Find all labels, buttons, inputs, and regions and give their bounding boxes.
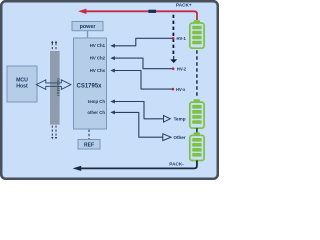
svg-text:HV Ch1: HV Ch1 <box>90 43 106 48</box>
svg-text:HV Chx: HV Chx <box>90 68 106 73</box>
wire Other sensor to other Ch <box>114 112 163 137</box>
svg-text:PACK+: PACK+ <box>176 3 192 8</box>
wire HV-1 to HV Ch1 <box>114 38 173 46</box>
Temp buffer triangle <box>164 116 171 123</box>
battery cell 2 <box>190 99 204 128</box>
node HV-x <box>172 88 175 91</box>
svg-text:HV-x: HV-x <box>176 87 186 92</box>
svg-text:PACK-: PACK- <box>169 161 184 166</box>
svg-text:REF: REF <box>84 143 94 149</box>
isolator barrier dashed continuation (bottom, arrows down) <box>51 126 57 140</box>
cell chain dashed line between cell 1 and cell 2 <box>196 50 198 98</box>
solid link between cell 2 and cell 3 <box>196 128 198 132</box>
svg-text:Host: Host <box>16 84 28 90</box>
frame background <box>1 1 218 179</box>
svg-text:Other: Other <box>173 135 185 140</box>
svg-text:Isolator: Isolator <box>56 78 61 96</box>
PACK+ red feed wire with arrow <box>86 11 197 20</box>
svg-text:HV-2: HV-2 <box>177 66 187 71</box>
svg-text:CS1795x: CS1795x <box>76 84 102 90</box>
svg-text:HV Ch2: HV Ch2 <box>90 56 106 61</box>
power connector <box>87 31 89 38</box>
svg-text:HV-1: HV-1 <box>177 36 187 41</box>
node HV-2 <box>172 67 175 70</box>
wire HV-2 to HV Ch2 <box>114 58 173 69</box>
PACK- return wire with arrow <box>81 160 197 168</box>
battery cell 1 <box>190 20 204 48</box>
wire Temp sensor to temp Ch <box>114 102 164 119</box>
REF dashed connector <box>88 130 90 140</box>
bus double arrow MCU <-> CS1795x <box>36 80 71 90</box>
svg-text:power: power <box>80 24 97 30</box>
MCU Host box <box>7 66 37 102</box>
svg-text:Temp: Temp <box>174 117 186 122</box>
chain continuation down-arrow <box>170 59 177 63</box>
fuse segment on PACK+ line <box>148 10 156 13</box>
CS1795x box <box>74 38 107 129</box>
REF box <box>78 140 100 150</box>
isolator bar <box>50 51 61 125</box>
Other buffer triangle <box>163 134 171 141</box>
wire HV-x to HV Chx <box>114 71 173 90</box>
battery cell 3 <box>190 132 204 160</box>
svg-text:other Ch: other Ch <box>87 110 105 115</box>
node HV-1 <box>172 37 175 40</box>
svg-text:temp Ch: temp Ch <box>88 99 106 104</box>
isolator barrier dashed continuation (top, arrows up) <box>51 41 57 50</box>
cell chain dashed line (PACK+ to HV-1 to arrow) <box>172 15 174 57</box>
power box <box>72 22 103 31</box>
